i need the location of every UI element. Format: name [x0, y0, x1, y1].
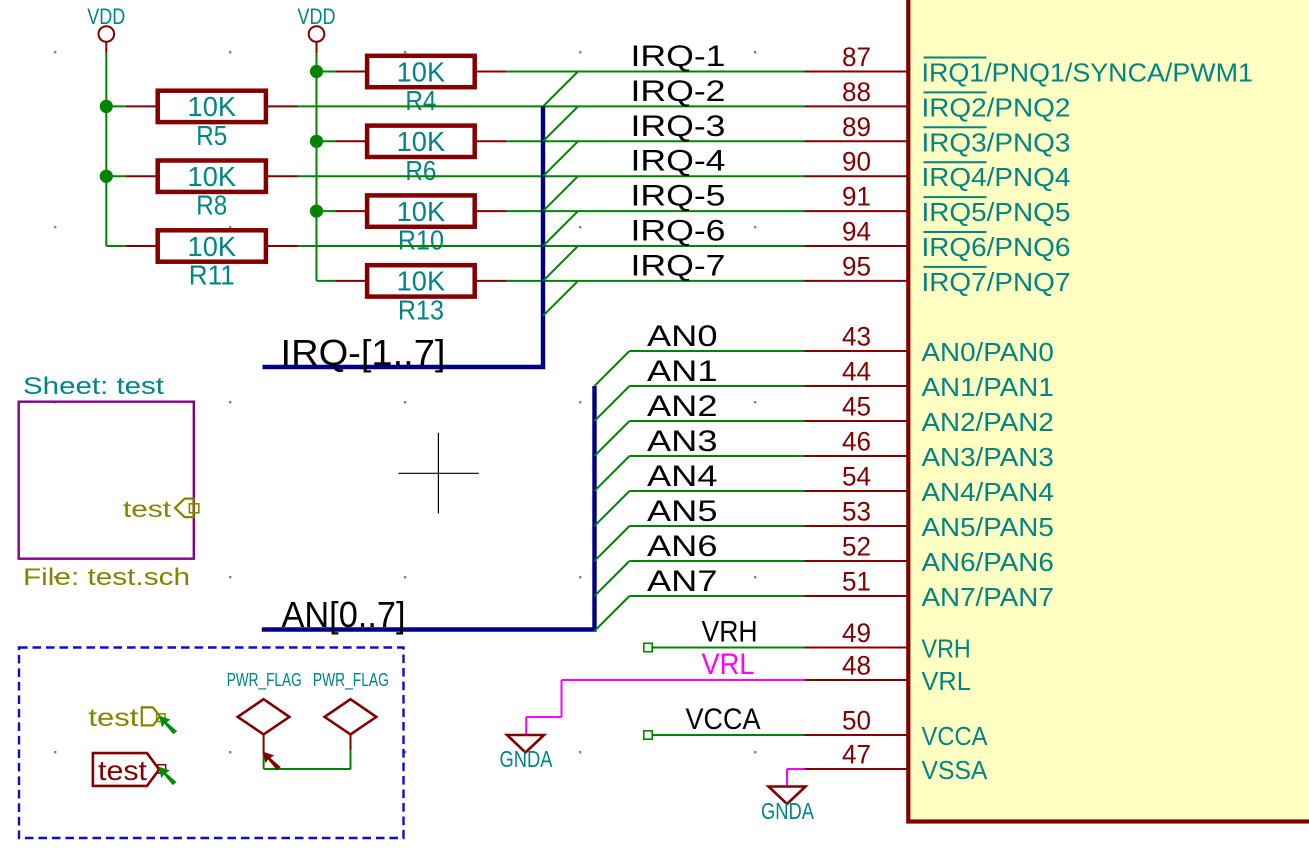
svg-text:10K: 10K: [188, 161, 237, 192]
svg-text:AN6: AN6: [647, 530, 718, 563]
net label AN2: [647, 390, 718, 423]
resistor R11 10K: [126, 230, 298, 290]
wire VCCA with dangling end square: [644, 731, 805, 739]
wire AN5: [630, 525, 805, 527]
power symbol GNDA right: [761, 787, 815, 825]
cursor arrow green 1: [159, 716, 177, 735]
svg-text:54: 54: [842, 462, 871, 492]
pin 46 AN3/PAN3: [805, 427, 1054, 473]
pin 95 IRQ7/PNQ7: [805, 251, 1071, 297]
bus entry IRQ-7: [543, 281, 578, 316]
cursor arrow green 2: [159, 767, 177, 786]
wire IRQ-5: [507, 210, 805, 212]
svg-text:50: 50: [842, 706, 871, 736]
svg-text:AN1: AN1: [647, 355, 718, 388]
resistor R10 10K: [335, 195, 507, 255]
svg-text:88: 88: [842, 77, 871, 107]
bus entry IRQ-2: [543, 106, 578, 141]
svg-text:46: 46: [842, 427, 871, 457]
svg-text:AN4/PAN4: AN4/PAN4: [922, 479, 1054, 507]
net label IRQ-6: [631, 215, 726, 248]
svg-text:10K: 10K: [397, 126, 446, 157]
cursor crosshair: [398, 433, 479, 514]
junction at R6 row: [310, 135, 323, 148]
pin 43 AN0/PAN0: [805, 322, 1054, 368]
net label AN0: [647, 320, 718, 353]
sheet file label: [23, 564, 190, 591]
wire VRL net to GNDA: [526, 680, 804, 735]
wire joining PWR_FLAGs: [264, 750, 351, 769]
net label AN3: [647, 425, 718, 458]
svg-text:IRQ5/PNQ5: IRQ5/PNQ5: [922, 199, 1071, 227]
svg-text:10K: 10K: [188, 231, 237, 262]
junction at R4 row: [310, 65, 323, 78]
svg-text:R5: R5: [196, 120, 227, 151]
power symbol GNDA left: [500, 735, 554, 772]
resistor R4 10K: [335, 56, 507, 116]
pin 87 IRQ1/PNQ1/SYNCA/PWM1: [805, 42, 1254, 88]
net label IRQ-3: [631, 110, 726, 143]
pin 47 VSSA: [805, 740, 988, 786]
resistor R13 10K: [335, 265, 507, 325]
svg-text:47: 47: [842, 740, 871, 770]
pin 53 AN5/PAN5: [805, 497, 1054, 543]
wire IRQ-2: [298, 105, 805, 107]
power flag PWR_FLAG right: [313, 669, 389, 750]
pin 51 AN7/PAN7: [805, 567, 1054, 613]
pin 44 AN1/PAN1: [805, 357, 1054, 403]
pin 94 IRQ6/PNQ6: [805, 217, 1071, 263]
wire right VDD rail: [317, 53, 336, 281]
svg-text:IRQ-1: IRQ-1: [631, 40, 726, 73]
wire AN4: [630, 490, 805, 492]
wire rail to R5: [106, 105, 125, 107]
svg-text:AN2/PAN2: AN2/PAN2: [922, 409, 1054, 437]
IC U1 body: [908, 0, 1309, 822]
svg-text:AN2: AN2: [647, 390, 718, 423]
selection box dashed: [19, 648, 404, 839]
svg-text:53: 53: [842, 497, 871, 527]
svg-text:IRQ2/PNQ2: IRQ2/PNQ2: [922, 94, 1071, 122]
svg-text:IRQ-7: IRQ-7: [631, 249, 726, 282]
net label IRQ-4: [631, 145, 726, 178]
sheet symbol test: [19, 402, 194, 559]
bus entry AN6: [595, 561, 630, 596]
svg-text:IRQ-[1..7]: IRQ-[1..7]: [281, 332, 446, 373]
pin 50 VCCA: [805, 706, 988, 752]
svg-text:test: test: [123, 496, 172, 522]
svg-text:48: 48: [842, 651, 871, 681]
svg-text:10K: 10K: [188, 91, 237, 122]
svg-text:VRH: VRH: [702, 616, 758, 649]
svg-text:IRQ4/PNQ4: IRQ4/PNQ4: [922, 164, 1071, 192]
svg-text:R4: R4: [405, 85, 436, 116]
net label AN1: [647, 355, 718, 388]
svg-text:51: 51: [842, 567, 871, 597]
wire left VDD rail: [106, 53, 125, 246]
svg-text:95: 95: [842, 251, 871, 281]
bus IRQ-[1..7] vertical: [541, 106, 545, 367]
svg-text:43: 43: [842, 322, 871, 352]
wire AN1: [630, 385, 805, 387]
svg-text:91: 91: [842, 182, 871, 212]
wire AN2: [630, 420, 805, 422]
sheet name label: [23, 373, 164, 400]
bus entry AN2: [595, 421, 630, 456]
bus entry AN0: [595, 351, 630, 386]
wire AN7: [630, 595, 805, 597]
svg-text:VRL: VRL: [922, 668, 971, 696]
net label AN5: [647, 495, 718, 528]
net label IRQ-1: [631, 40, 726, 73]
pin 48 VRL: [805, 651, 971, 697]
wire rail2 to R4: [317, 71, 336, 73]
pin 52 AN6/PAN6: [805, 532, 1054, 578]
svg-text:GNDA: GNDA: [500, 746, 554, 772]
junction at R8 row: [100, 170, 113, 183]
wire AN0: [630, 350, 805, 352]
pin 54 AN4/PAN4: [805, 462, 1054, 508]
svg-text:R8: R8: [196, 190, 227, 221]
net label IRQ-5: [631, 180, 726, 213]
net label AN6: [647, 530, 718, 563]
wire rail2 to R10: [317, 210, 336, 212]
svg-text:52: 52: [842, 532, 871, 562]
svg-text:AN7/PAN7: AN7/PAN7: [922, 584, 1054, 612]
svg-text:10K: 10K: [397, 196, 446, 227]
svg-text:VSSA: VSSA: [922, 757, 988, 785]
wire VSSA to GNDA: [787, 769, 805, 787]
svg-text:AN6/PAN6: AN6/PAN6: [922, 549, 1054, 577]
svg-text:AN5/PAN5: AN5/PAN5: [922, 514, 1054, 542]
net label IRQ-2: [631, 75, 726, 108]
junction at R10 row: [310, 205, 323, 218]
net label VCCA: [686, 703, 761, 736]
wire IRQ-4: [298, 175, 805, 177]
resistor R5 10K: [126, 91, 298, 151]
wire rail2 to R6: [317, 140, 336, 142]
svg-text:AN[0..7]: AN[0..7]: [282, 594, 406, 635]
net label AN7: [647, 565, 718, 598]
pin 91 IRQ5/PNQ5: [805, 182, 1071, 228]
svg-text:10K: 10K: [397, 56, 446, 87]
power symbol VDD #PWR02: [298, 4, 336, 53]
wire IRQ-7: [507, 280, 805, 282]
svg-text:IRQ-5: IRQ-5: [631, 180, 726, 213]
svg-text:94: 94: [842, 217, 871, 247]
pin 90 IRQ4/PNQ4: [805, 147, 1071, 193]
svg-text:IRQ-3: IRQ-3: [631, 110, 726, 143]
svg-text:10K: 10K: [397, 266, 446, 297]
bus AN[0..7] vertical: [592, 386, 596, 630]
svg-text:R6: R6: [405, 155, 436, 186]
hierarchical label test: [88, 704, 165, 732]
bus entry IRQ-4: [543, 176, 578, 211]
pin 49 VRH: [805, 618, 971, 664]
bus entry IRQ-1: [543, 72, 578, 107]
svg-text:PWR_FLAG: PWR_FLAG: [227, 669, 302, 691]
bus label IRQ-[1..7]: [281, 332, 446, 373]
svg-text:AN0/PAN0: AN0/PAN0: [922, 339, 1054, 367]
net label AN4: [647, 460, 718, 493]
svg-text:IRQ1/PNQ1/SYNCA/PWM1: IRQ1/PNQ1/SYNCA/PWM1: [922, 60, 1254, 88]
svg-text:AN7: AN7: [647, 565, 718, 598]
svg-text:AN5: AN5: [647, 495, 718, 528]
bus entry IRQ-6: [543, 246, 578, 281]
resistor R6 10K: [335, 126, 507, 186]
bus entry IRQ-5: [543, 211, 578, 246]
svg-text:90: 90: [842, 147, 871, 177]
svg-text:VRH: VRH: [922, 636, 971, 664]
wire IRQ-3: [507, 140, 805, 142]
svg-text:GNDA: GNDA: [761, 798, 815, 824]
svg-text:IRQ3/PNQ3: IRQ3/PNQ3: [922, 129, 1071, 157]
wire IRQ-6: [298, 245, 805, 247]
svg-text:89: 89: [842, 112, 871, 142]
svg-text:test: test: [88, 704, 138, 732]
power flag PWR_FLAG left: [227, 669, 302, 753]
junction at R5 row: [100, 100, 113, 113]
pin 45 AN2/PAN2: [805, 392, 1054, 438]
svg-text:File: test.sch: File: test.sch: [23, 564, 190, 591]
bus entry AN3: [595, 456, 630, 491]
net label VRL: [702, 648, 755, 681]
resistor R8 10K: [126, 161, 298, 221]
net label IRQ-7: [631, 249, 726, 282]
wire AN3: [630, 455, 805, 457]
svg-text:VRL: VRL: [702, 648, 755, 681]
wire IRQ-1: [507, 71, 805, 73]
svg-text:VDD: VDD: [87, 4, 125, 29]
svg-text:VCCA: VCCA: [686, 703, 761, 736]
bus label AN[0..7]: [282, 594, 406, 635]
svg-text:Sheet: test: Sheet: test: [23, 373, 164, 400]
cursor arrow dark red: [263, 752, 281, 771]
bus entry AN5: [595, 526, 630, 561]
wire AN6: [630, 560, 805, 562]
svg-text:IRQ-2: IRQ-2: [631, 75, 726, 108]
svg-text:IRQ-4: IRQ-4: [631, 145, 726, 178]
svg-text:test: test: [98, 755, 147, 786]
svg-text:IRQ7/PNQ7: IRQ7/PNQ7: [922, 269, 1071, 297]
svg-text:PWR_FLAG: PWR_FLAG: [313, 669, 389, 691]
svg-text:AN3: AN3: [647, 425, 718, 458]
svg-text:VDD: VDD: [298, 4, 336, 29]
svg-text:AN3/PAN3: AN3/PAN3: [922, 444, 1054, 472]
svg-text:R13: R13: [398, 294, 444, 325]
bus IRQ-[1..7] horizontal: [263, 365, 546, 369]
global label test: [93, 753, 166, 786]
svg-text:AN0: AN0: [647, 320, 718, 353]
bus entry AN4: [595, 491, 630, 526]
pin 89 IRQ3/PNQ3: [805, 112, 1071, 158]
svg-text:R11: R11: [189, 260, 235, 291]
svg-text:AN1/PAN1: AN1/PAN1: [922, 374, 1054, 402]
bus AN[0..7] horizontal: [262, 627, 597, 631]
bus entry IRQ-3: [543, 141, 578, 176]
wire VRH with dangling end square: [644, 643, 805, 651]
bus entry AN1: [595, 386, 630, 421]
svg-text:IRQ-6: IRQ-6: [631, 215, 726, 248]
svg-text:AN4: AN4: [647, 460, 718, 493]
svg-text:87: 87: [842, 42, 871, 72]
net label VRH: [702, 616, 758, 649]
bus entry AN7: [595, 596, 630, 631]
svg-text:R10: R10: [398, 225, 444, 256]
wire rail to R8: [106, 175, 125, 177]
pin 88 IRQ2/PNQ2: [805, 77, 1071, 123]
svg-text:44: 44: [842, 357, 871, 387]
sheet pin test: [123, 496, 199, 522]
svg-text:49: 49: [842, 618, 871, 648]
svg-text:45: 45: [842, 392, 871, 422]
svg-text:IRQ6/PNQ6: IRQ6/PNQ6: [922, 234, 1071, 262]
power symbol VDD #PWR01: [87, 4, 125, 53]
svg-text:VCCA: VCCA: [922, 723, 988, 751]
